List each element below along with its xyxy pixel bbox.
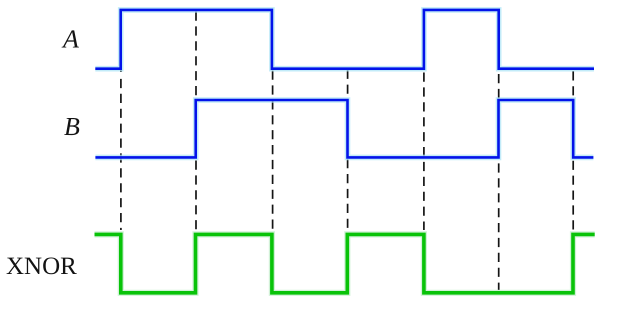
svg-text:B: B [64, 112, 80, 141]
svg-text:A: A [61, 25, 79, 54]
svg-text:XNOR: XNOR [6, 253, 77, 280]
